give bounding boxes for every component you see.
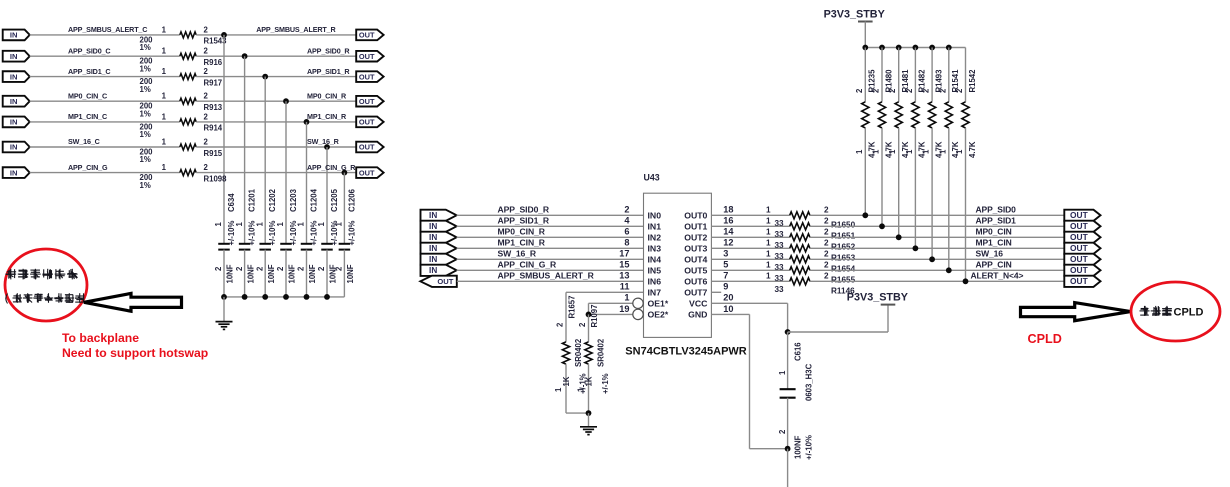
- svg-text:17: 17: [619, 249, 629, 259]
- svg-text:1%: 1%: [140, 155, 151, 164]
- resistor R1651 33 ohm: [790, 223, 810, 230]
- port OUT APP_SID1: [1064, 221, 1100, 232]
- svg-text:1: 1: [162, 112, 167, 121]
- wire APP_SMBUS_ALERT_R to OUT port: [196, 34, 356, 36]
- svg-text:3: 3: [723, 249, 728, 259]
- wire APP_CIN_G_R to U43 IN5: [457, 269, 644, 271]
- wire OE node down to R1097: [588, 314, 590, 341]
- svg-text:R915: R915: [204, 149, 223, 158]
- wire R1482 down to net: [914, 128, 916, 248]
- capacitor C634 10NF: [218, 243, 230, 245]
- svg-text:20: 20: [723, 293, 733, 303]
- resistor R1654 33 ohm: [790, 256, 810, 263]
- resistor R1481 4.7K: [895, 102, 902, 128]
- svg-text:2: 2: [297, 266, 306, 271]
- port OUT APP_CIN: [1064, 265, 1100, 276]
- port IN SW_16_C: [3, 142, 30, 153]
- svg-text:To backplane: To backplane: [62, 331, 139, 345]
- svg-text:1: 1: [766, 239, 771, 248]
- port OUT ALERT_N&lt;4&gt;: [1064, 276, 1100, 287]
- svg-text:13: 13: [619, 271, 629, 281]
- resistor R1542 4.7K: [962, 102, 969, 128]
- svg-text:OUT: OUT: [1070, 221, 1089, 231]
- resistor R913: [180, 98, 196, 104]
- svg-text:IN: IN: [429, 266, 437, 275]
- wire C1203 to gnd bus: [285, 250, 287, 297]
- junction pull-up bus at R1493: [929, 45, 935, 51]
- wire MP1_CIN to OUT port: [810, 247, 1064, 249]
- svg-text:OUT: OUT: [1070, 276, 1089, 286]
- gnd bus under R1657 R1097: [566, 412, 589, 414]
- svg-text:SR0402: SR0402: [596, 338, 605, 367]
- wire SW_16_C to resistor R915: [30, 146, 180, 148]
- svg-text:+/-10%: +/-10%: [347, 221, 356, 246]
- svg-text:1: 1: [335, 222, 344, 227]
- svg-text:1: 1: [766, 272, 771, 281]
- svg-text:0603_H3C: 0603_H3C: [805, 363, 814, 401]
- svg-text:2: 2: [214, 266, 223, 271]
- svg-text:1: 1: [766, 228, 771, 237]
- wire APP_SID0 to OUT port: [810, 214, 1064, 216]
- svg-text:2: 2: [938, 88, 947, 93]
- svg-text:5: 5: [723, 260, 728, 270]
- junction VCC node at C616: [785, 329, 791, 335]
- svg-text:R1651: R1651: [831, 232, 856, 241]
- svg-text:2: 2: [556, 322, 565, 327]
- svg-text:ALERT_N<4>: ALERT_N<4>: [971, 270, 1024, 280]
- port IN SW_16_R: [421, 254, 457, 265]
- wire APP_CIN to OUT port: [810, 269, 1064, 271]
- red ellipse annotation left (backplane connector): [5, 249, 87, 321]
- svg-text:IN5: IN5: [648, 265, 662, 275]
- svg-text:8: 8: [624, 238, 629, 248]
- wire SW_16_R to U43 IN4: [457, 258, 644, 260]
- wire U43 OUT2 to resistor R1652: [711, 236, 789, 238]
- capacitor C616 100NF: [780, 388, 796, 390]
- svg-text:2: 2: [824, 239, 829, 248]
- svg-text:IN: IN: [10, 31, 18, 40]
- svg-text:OUT: OUT: [1070, 210, 1089, 220]
- svg-text:2: 2: [824, 228, 829, 237]
- svg-text:1: 1: [162, 67, 167, 76]
- wire APP_SID1_R to U43 IN1: [457, 225, 644, 227]
- svg-text:APP_SID0_R: APP_SID0_R: [307, 46, 350, 55]
- svg-text:R913: R913: [204, 103, 223, 112]
- svg-text:1: 1: [872, 149, 881, 154]
- junction C1204 at gnd bus: [304, 294, 310, 300]
- wire C1205 to gnd bus: [326, 250, 328, 297]
- svg-text:MP1_CIN_R: MP1_CIN_R: [307, 112, 347, 121]
- wire P3V3_STBY to resistor R1493: [931, 48, 933, 102]
- wire P3V3_STBY to resistor R1541: [948, 48, 950, 102]
- svg-text:10NF: 10NF: [308, 264, 317, 283]
- svg-text:2: 2: [824, 261, 829, 270]
- wire P3V3_STBY to resistor R1480: [881, 48, 883, 102]
- svg-text:2: 2: [204, 67, 209, 76]
- wire P3V3_STBY to resistor R1235: [864, 48, 866, 102]
- wire MP0_CIN_C to resistor R913: [30, 100, 180, 102]
- wire APP_SMBUS_ALERT_R down to capacitor C634: [223, 35, 225, 244]
- svg-text:R1650: R1650: [831, 221, 856, 230]
- svg-text:2: 2: [905, 88, 914, 93]
- wire R1541 down to net: [948, 128, 950, 270]
- wire U43 GND pin 10: [711, 313, 749, 315]
- svg-text:1: 1: [554, 387, 563, 392]
- wire U43 OUT7 pin 9 stub: [711, 291, 721, 293]
- svg-text:10: 10: [723, 304, 733, 314]
- junction APP_SID0_R to C1201: [242, 53, 248, 59]
- wire R1657 to gnd bus: [565, 364, 567, 413]
- svg-text:15: 15: [619, 260, 629, 270]
- port IN APP_CIN_G_R: [421, 265, 457, 276]
- svg-text:SR0402: SR0402: [574, 338, 583, 367]
- junction C1202 at gnd bus: [262, 294, 268, 300]
- annotation text line 2: (need to support hot swap): [6, 294, 8, 304]
- wire APP_CIN_G_R to OUT port: [196, 172, 356, 174]
- svg-text:OUT: OUT: [1070, 265, 1089, 275]
- svg-text:APP_SID1_R: APP_SID1_R: [498, 215, 550, 225]
- port IN MP0_CIN_R: [421, 232, 457, 243]
- svg-text:MP1_CIN_C: MP1_CIN_C: [68, 112, 107, 121]
- port IN APP_SID0_C: [3, 51, 30, 62]
- svg-text:OUT5: OUT5: [684, 265, 707, 275]
- svg-text:11: 11: [620, 282, 630, 292]
- svg-text:2: 2: [204, 47, 209, 56]
- wire MP1_CIN_R to OUT port: [196, 121, 356, 123]
- wire U43 OUT1 to resistor R1651: [711, 225, 789, 227]
- svg-text:OUT7: OUT7: [684, 287, 707, 297]
- svg-text:GND: GND: [688, 310, 707, 320]
- junction MP0_CIN_R to C1203: [283, 98, 289, 104]
- port OUT MP1_CIN: [1064, 243, 1100, 254]
- wire APP_SID0_R to U43 IN0: [457, 214, 644, 216]
- port IN APP_CIN_G: [3, 167, 30, 178]
- capacitor C1206 10NF: [339, 243, 351, 245]
- wire SW_16_R down to capacitor C1205: [326, 147, 328, 244]
- svg-text:OUT: OUT: [359, 143, 375, 152]
- svg-text:1: 1: [162, 92, 167, 101]
- svg-text:APP_SID0: APP_SID0: [976, 204, 1017, 214]
- svg-text:1: 1: [235, 222, 244, 227]
- svg-text:U43: U43: [644, 173, 660, 183]
- wire ALERT_N&lt;4&gt; to OUT port: [810, 280, 1064, 282]
- wire C1201 to gnd bus: [244, 250, 246, 297]
- svg-text:10NF: 10NF: [267, 264, 276, 283]
- wire MP1_CIN_R to U43 IN3: [457, 247, 644, 249]
- svg-text:IN: IN: [10, 72, 18, 81]
- svg-text:CPLD: CPLD: [1028, 332, 1062, 346]
- svg-text:4.7K: 4.7K: [868, 141, 877, 158]
- svg-text:IN: IN: [10, 168, 18, 177]
- svg-text:IN7: IN7: [648, 287, 662, 297]
- junction at gnd bus R1097: [586, 410, 592, 416]
- svg-text:16: 16: [723, 216, 733, 226]
- wire APP_SID1_C to resistor R917: [30, 76, 180, 78]
- resistor R1650 33 ohm: [790, 212, 810, 219]
- junction ALERT_N&lt;4&gt; pull-up tap: [963, 278, 969, 284]
- resistor R1657 1K SR0402: [562, 342, 569, 364]
- svg-text:1: 1: [624, 293, 629, 303]
- wire APP_SID1_R to OUT port: [196, 76, 356, 78]
- port OUT MP0_CIN: [1064, 232, 1100, 243]
- resistor R1653 33 ohm: [790, 245, 810, 252]
- wire GND node to bottom edge: [787, 449, 789, 487]
- svg-text:C634: C634: [227, 193, 236, 212]
- port OUT MP1_CIN_R: [356, 117, 383, 128]
- svg-text:1%: 1%: [140, 109, 151, 118]
- junction APP_CIN_G_R to C1206: [342, 170, 348, 176]
- svg-text:2: 2: [235, 266, 244, 271]
- svg-text:IN: IN: [429, 211, 437, 220]
- resistor R1493 4.7K: [929, 102, 936, 128]
- svg-text:4.7K: 4.7K: [968, 141, 977, 158]
- wire R1493 down to net: [931, 128, 933, 259]
- black arrow annotation pointing right: [1021, 303, 1131, 321]
- svg-text:1%: 1%: [140, 181, 151, 190]
- wire APP_SID0_C to resistor R916: [30, 55, 180, 57]
- port OUT APP_SMBUS_ALERT_R: [356, 30, 383, 41]
- svg-text:IN: IN: [429, 244, 437, 253]
- svg-text:4.7K: 4.7K: [934, 141, 943, 158]
- svg-text:2: 2: [578, 322, 587, 327]
- junction C1201 at gnd bus: [242, 294, 248, 300]
- svg-text:OUT: OUT: [359, 52, 375, 61]
- wire APP_SID0_R to OUT port: [196, 55, 356, 57]
- pull-up bus P3V3_STBY: [865, 47, 965, 49]
- svg-text:1: 1: [855, 149, 864, 154]
- wire MP0_CIN to OUT port: [810, 236, 1064, 238]
- svg-text:OE1*: OE1*: [648, 298, 669, 308]
- svg-text:R1097: R1097: [590, 305, 599, 328]
- svg-text:IN: IN: [10, 143, 18, 152]
- svg-text:MP0_CIN_R: MP0_CIN_R: [307, 91, 347, 100]
- wire P3V3_STBY to resistor R1482: [914, 48, 916, 102]
- ground symbol left: [223, 297, 225, 322]
- svg-text:MP0_CIN_R: MP0_CIN_R: [498, 226, 546, 236]
- svg-text:2: 2: [255, 266, 264, 271]
- svg-text:1: 1: [255, 222, 264, 227]
- red ellipse annotation right (CPLD of board): [1131, 282, 1220, 341]
- junction pull-up bus at R1541: [946, 45, 952, 51]
- wire C1206 to gnd bus: [343, 250, 345, 297]
- svg-text:R1652: R1652: [831, 243, 856, 252]
- svg-text:OUT: OUT: [359, 31, 375, 40]
- svg-text:R1654: R1654: [831, 265, 856, 274]
- svg-text:4.7K: 4.7K: [951, 141, 960, 158]
- resistor R915: [180, 144, 196, 150]
- svg-text:SW_16_C: SW_16_C: [68, 137, 100, 146]
- svg-text:7: 7: [723, 271, 728, 281]
- svg-text:12: 12: [723, 238, 733, 248]
- svg-text:IN: IN: [10, 52, 18, 61]
- svg-text:OUT: OUT: [359, 118, 375, 127]
- svg-text:2: 2: [624, 205, 629, 215]
- svg-text:APP_SID0_C: APP_SID0_C: [68, 46, 110, 55]
- svg-text:2: 2: [335, 266, 344, 271]
- power symbol P3V3_STBY bottom: [881, 304, 896, 306]
- svg-text:IN6: IN6: [648, 276, 662, 286]
- wire U43 VCC pin 20 to P3V3_STBY: [711, 302, 787, 304]
- svg-text:APP_SID1_R: APP_SID1_R: [307, 67, 350, 76]
- port IN APP_SID1_R: [421, 221, 457, 232]
- svg-text:1: 1: [888, 149, 897, 154]
- wire P3V3_STBY to resistor R1542: [965, 48, 967, 102]
- svg-text:1K: 1K: [562, 376, 571, 386]
- svg-text:OUT3: OUT3: [684, 243, 707, 253]
- junction OE1/OE2 node: [586, 312, 592, 318]
- black arrow annotation pointing left: [84, 293, 182, 311]
- svg-text:4.7K: 4.7K: [884, 141, 893, 158]
- svg-text:10NF: 10NF: [288, 264, 297, 283]
- svg-text:R916: R916: [204, 58, 223, 67]
- junction MP1_CIN pull-up tap: [913, 245, 919, 251]
- port IN APP_SID0_R: [421, 210, 457, 221]
- svg-text:MP1_CIN_R: MP1_CIN_R: [498, 237, 546, 247]
- svg-text:MP1_CIN: MP1_CIN: [976, 237, 1012, 247]
- wire U43 OUT3 to resistor R1653: [711, 247, 789, 249]
- svg-text:OUT2: OUT2: [684, 232, 707, 242]
- svg-text:R1657: R1657: [568, 296, 577, 319]
- svg-text:OUT: OUT: [359, 168, 375, 177]
- svg-text:2: 2: [855, 88, 864, 93]
- port OUT MP0_CIN_R: [356, 96, 383, 107]
- wire P3V3_STBY to resistor R1481: [898, 48, 900, 102]
- svg-text:2: 2: [888, 88, 897, 93]
- svg-text:14: 14: [723, 227, 734, 237]
- svg-text:9: 9: [723, 282, 728, 292]
- svg-text:APP_SID1: APP_SID1: [976, 215, 1017, 225]
- capacitor C1202 10NF: [259, 243, 271, 245]
- svg-text:MP0_CIN_C: MP0_CIN_C: [68, 91, 107, 100]
- svg-text:C1203: C1203: [289, 188, 298, 212]
- svg-text:1: 1: [214, 222, 223, 227]
- annotation text dan ban de CPLD (board CPLD): [1140, 306, 1150, 316]
- wire C616 to GND node: [787, 398, 789, 449]
- junction APP_CIN pull-up tap: [946, 267, 952, 273]
- svg-text:2: 2: [922, 88, 931, 93]
- wire APP_CIN_G to resistor R1098: [30, 172, 180, 174]
- svg-text:2: 2: [276, 266, 285, 271]
- capacitor C1201 10NF: [239, 243, 251, 245]
- resistor R914: [180, 119, 196, 125]
- resistor R1655 33 ohm: [790, 267, 810, 274]
- svg-text:IN1: IN1: [648, 221, 662, 231]
- svg-text:Need to support hotswap: Need to support hotswap: [62, 346, 208, 360]
- wire VCC node down to capacitor C616: [787, 332, 789, 389]
- wire U43 OE2* pin 19 to resistor R1097: [589, 313, 633, 315]
- port OUT SW_16_R: [356, 142, 383, 153]
- svg-text:C616: C616: [794, 342, 803, 361]
- wire C634 to gnd bus: [223, 250, 225, 297]
- wire MP0_CIN_R down to capacitor C1203: [285, 101, 287, 244]
- port OUT APP_SID1_R: [356, 71, 383, 82]
- svg-text:10NF: 10NF: [226, 264, 235, 283]
- svg-text:IN: IN: [429, 222, 437, 231]
- port OUT APP_CIN_G_R: [356, 167, 383, 178]
- resistor R1098: [180, 170, 196, 176]
- svg-text:IN2: IN2: [648, 232, 662, 242]
- svg-text:2: 2: [824, 206, 829, 215]
- resistor R1652 33 ohm: [790, 234, 810, 241]
- resistor R1543: [180, 32, 196, 38]
- capacitor C1203 10NF: [280, 243, 292, 245]
- wire APP_SMBUS_ALERT_C to resistor R1543: [30, 34, 180, 36]
- wire MP0_CIN_R to OUT port: [196, 100, 356, 102]
- svg-text:1: 1: [955, 149, 964, 154]
- port OUT APP_SID0_R: [356, 51, 383, 62]
- svg-text:2: 2: [317, 266, 326, 271]
- wire VCC node to power symbol: [788, 331, 888, 333]
- wire R1097 to gnd bus: [588, 364, 590, 413]
- svg-text:19: 19: [619, 304, 629, 314]
- wire SW_16_R to OUT port: [196, 146, 356, 148]
- junction APP_SID1 pull-up tap: [879, 223, 885, 229]
- junction C1205 at gnd bus: [324, 294, 330, 300]
- svg-text:APP_SMBUS_ALERT_C: APP_SMBUS_ALERT_C: [68, 25, 147, 34]
- resistor R917: [180, 74, 196, 80]
- svg-text:APP_CIN_G: APP_CIN_G: [68, 163, 108, 172]
- svg-text:R1542: R1542: [968, 69, 977, 93]
- wire U43 OE1* pin 1: [589, 302, 633, 304]
- port IN APP_SMBUS_ALERT_C: [3, 30, 30, 41]
- svg-text:C1205: C1205: [330, 188, 339, 212]
- svg-text:APP_CIN: APP_CIN: [976, 259, 1012, 269]
- resistor R1480 4.7K: [878, 102, 885, 128]
- svg-text:2: 2: [204, 137, 209, 146]
- svg-text:C1206: C1206: [347, 188, 356, 212]
- svg-text:R1655: R1655: [831, 276, 856, 285]
- wire MP0_CIN_R to U43 IN2: [457, 236, 644, 238]
- wire APP_SID1 to OUT port: [810, 225, 1064, 227]
- svg-text:SW_16_R: SW_16_R: [498, 248, 537, 258]
- svg-text:2: 2: [204, 92, 209, 101]
- wire U43 IN7 pin 11 to resistor R1657: [566, 291, 644, 293]
- svg-text:APP_SMBUS_ALERT_R: APP_SMBUS_ALERT_R: [256, 25, 336, 34]
- resistor R1097 1K SR0402: [585, 342, 592, 364]
- svg-text:1%: 1%: [140, 130, 151, 139]
- wire C1204 to gnd bus: [306, 250, 308, 297]
- svg-text:2: 2: [204, 25, 209, 34]
- junction C1203 at gnd bus: [283, 294, 289, 300]
- svg-text:1: 1: [162, 163, 167, 172]
- svg-text:1: 1: [577, 387, 586, 392]
- svg-text:SW_16_R: SW_16_R: [307, 137, 340, 146]
- svg-text:VCC: VCC: [689, 298, 708, 308]
- svg-text:2: 2: [204, 163, 209, 172]
- svg-text:4.7K: 4.7K: [918, 141, 927, 158]
- junction pull-up bus at R1480: [879, 45, 885, 51]
- wire U43 OUT6 to resistor R1146: [711, 280, 789, 282]
- svg-text:1: 1: [922, 149, 931, 154]
- svg-text:IN: IN: [10, 118, 18, 127]
- wire APP_SID0_R down to capacitor C1201: [244, 56, 246, 244]
- svg-text:1: 1: [317, 222, 326, 227]
- junction C634 at gnd bus: [221, 294, 227, 300]
- svg-text:APP_CIN_G_R: APP_CIN_G_R: [498, 259, 557, 269]
- svg-text:1%: 1%: [140, 85, 151, 94]
- svg-text:OUT: OUT: [1070, 254, 1089, 264]
- svg-text:1%: 1%: [140, 43, 151, 52]
- svg-text:OUT: OUT: [1070, 232, 1089, 242]
- svg-text:33: 33: [775, 285, 785, 294]
- svg-text:IN4: IN4: [648, 254, 662, 264]
- resistor R1235 4.7K: [862, 102, 869, 128]
- port IN MP1_CIN_R: [421, 243, 457, 254]
- svg-text:+/-1%: +/-1%: [601, 373, 610, 394]
- svg-text:1: 1: [766, 206, 771, 215]
- svg-text:100NF: 100NF: [794, 435, 803, 459]
- annotation text line 1: dao bei ban lian jie qi (to backplane connector): [6, 269, 17, 280]
